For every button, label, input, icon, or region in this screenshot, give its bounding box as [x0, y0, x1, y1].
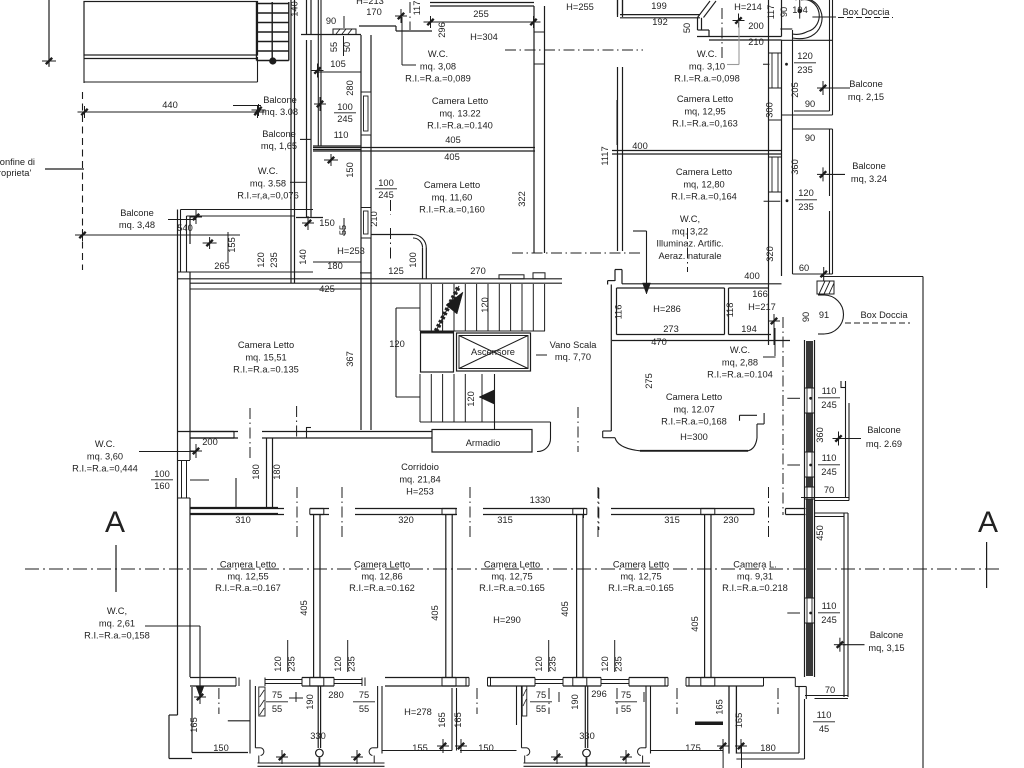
- svg-text:H=290: H=290: [493, 615, 521, 625]
- entry niche steps: [697, 18, 699, 30]
- door arc entry hall: [371, 234, 413, 236]
- stairwell west wall: [533, 6, 535, 253]
- svg-text:120: 120: [333, 656, 343, 672]
- wall stub right balcony: [695, 722, 723, 726]
- svg-text:90: 90: [805, 133, 815, 143]
- svg-text:50: 50: [682, 23, 692, 33]
- bedroom5 door jambs: [753, 509, 755, 515]
- svg-text:Balcone: Balcone: [870, 630, 904, 640]
- svg-text:210: 210: [369, 211, 379, 227]
- svg-text:mq. 11,60: mq. 11,60: [432, 192, 473, 202]
- svg-text:125: 125: [388, 266, 404, 276]
- svg-text:mq. 12,75: mq. 12,75: [491, 571, 532, 581]
- svg-text:296: 296: [437, 22, 447, 38]
- svg-text:120: 120: [256, 252, 266, 268]
- balcony bedroom3 left wall: [516, 686, 518, 725]
- right box H=217: [729, 287, 769, 289]
- svg-text:mq. 12.07: mq. 12.07: [673, 404, 714, 414]
- door centerline camera 12.07: [577, 407, 579, 452]
- camera 12.07 left wall with notch: [610, 285, 612, 432]
- balcone 2.69 outline: [845, 381, 847, 498]
- svg-text:199: 199: [651, 1, 667, 11]
- balcony left under bedroom1: [191, 687, 193, 753]
- svg-text:Camera Letto: Camera Letto: [666, 392, 722, 402]
- svg-text:mq. 3,60: mq. 3,60: [87, 451, 123, 461]
- svg-text:160: 160: [154, 481, 170, 491]
- svg-text:270: 270: [470, 266, 486, 276]
- balcony door centerlines: [218, 688, 220, 714]
- svg-text:R.I.=R.a.=0.167: R.I.=R.a.=0.167: [215, 583, 281, 593]
- svg-text:Camera Letto: Camera Letto: [238, 340, 294, 350]
- svg-text:245: 245: [378, 190, 394, 200]
- svg-text:150: 150: [213, 743, 229, 753]
- stairwell window west wall: [535, 32, 544, 64]
- svg-text:120: 120: [534, 656, 544, 672]
- svg-text:322: 322: [517, 191, 527, 207]
- svg-text:R.I.=R.a.=0,089: R.I.=R.a.=0,089: [405, 74, 471, 84]
- svg-text:165: 165: [714, 699, 724, 715]
- svg-text:166: 166: [752, 289, 768, 299]
- svg-text:mq. 21,84: mq. 21,84: [399, 474, 440, 484]
- right apartment entry wall 199: [617, 0, 619, 15]
- svg-text:100: 100: [408, 252, 418, 268]
- wall west of entry strip: [290, 0, 292, 283]
- svg-text:H=300: H=300: [680, 432, 708, 442]
- tick at entry: [400, 9, 402, 23]
- svg-text:180: 180: [251, 464, 261, 480]
- svg-text:120: 120: [600, 656, 610, 672]
- terrace balcony top-left outline: [84, 2, 258, 56]
- right exterior wall upper: [768, 0, 770, 120]
- armadio outer wall curve: [495, 421, 551, 423]
- svg-text:120: 120: [798, 188, 814, 198]
- svg-text:H=213: H=213: [356, 0, 384, 6]
- dimension 150 and tick: [307, 216, 309, 230]
- crosses on rail 3-4: [556, 750, 558, 764]
- svg-text:mq. 3,08: mq. 3,08: [420, 61, 456, 71]
- svg-text:R.I.=R.a.=0.135: R.I.=R.a.=0.135: [233, 365, 299, 375]
- svg-text:110: 110: [334, 130, 349, 140]
- svg-text:A: A: [978, 506, 998, 539]
- terrace left edge lines: [83, 55, 85, 83]
- svg-text:310: 310: [235, 515, 251, 525]
- svg-text:120: 120: [480, 297, 490, 313]
- pilaster stub camera 12.07 corner: [614, 270, 616, 282]
- svg-text:55: 55: [272, 704, 282, 714]
- window right wall 2: [770, 157, 781, 192]
- svg-text:Balcone: Balcone: [849, 79, 883, 89]
- box doccia top arc: [793, 0, 823, 39]
- balcony 3-4 bottom rail: [524, 762, 651, 764]
- svg-text:mq, 1,65: mq, 1,65: [261, 141, 297, 151]
- svg-text:45: 45: [819, 724, 829, 734]
- door jambs bedroom bottom wall: [235, 678, 237, 687]
- svg-text:330: 330: [579, 731, 595, 741]
- window camera 13.22: [362, 92, 371, 135]
- entry door wall step: [359, 25, 396, 27]
- svg-text:mq. 3.58: mq. 3.58: [250, 178, 286, 188]
- svg-text:90: 90: [805, 99, 815, 109]
- svg-text:A: A: [105, 506, 125, 539]
- svg-text:55: 55: [359, 704, 369, 714]
- property boundary vertical line: [48, 0, 50, 66]
- svg-text:Camera Letto: Camera Letto: [424, 180, 480, 190]
- svg-text:70: 70: [824, 485, 834, 495]
- svg-text:Armadio: Armadio: [466, 438, 501, 448]
- svg-text:110: 110: [817, 710, 832, 720]
- camera 12.07 ornate bottom wall: [640, 450, 748, 452]
- svg-text:245: 245: [821, 467, 837, 477]
- svg-text:Corridoio: Corridoio: [401, 462, 439, 472]
- windows right lower wall: [805, 387, 815, 389]
- right dash dot vertical: [782, 317, 784, 515]
- stair up arrow hatched: [436, 286, 459, 331]
- svg-text:360: 360: [790, 159, 800, 175]
- boundary tick line: [45, 168, 84, 170]
- wall wc 3.58 east side: [306, 40, 308, 218]
- svg-text:280: 280: [345, 80, 355, 96]
- wall stub in wc 3.60: [235, 478, 237, 508]
- window sills bedroom bottom: [265, 679, 302, 681]
- right lower wall dark fill: [806, 341, 813, 388]
- svg-text:mq, 3.24: mq, 3.24: [851, 174, 887, 184]
- svg-text:mq. 7,70: mq. 7,70: [555, 352, 591, 362]
- svg-text:450: 450: [815, 525, 825, 541]
- svg-text:H=253: H=253: [337, 246, 365, 256]
- dimension line 235: [75, 234, 240, 236]
- door centerline corridor wc: [249, 408, 251, 458]
- svg-text:W.C,: W.C,: [107, 606, 127, 616]
- svg-text:W.C.: W.C.: [428, 49, 448, 59]
- svg-text:100: 100: [154, 469, 170, 479]
- svg-text:Illuminaz. Artific.: Illuminaz. Artific.: [656, 239, 723, 249]
- svg-text:440: 440: [162, 100, 178, 110]
- svg-text:75: 75: [272, 690, 282, 700]
- svg-text:150: 150: [345, 162, 355, 178]
- svg-text:120: 120: [797, 51, 813, 61]
- svg-text:mq. 3.08: mq. 3.08: [262, 107, 298, 117]
- svg-text:105: 105: [330, 59, 346, 69]
- svg-text:R.I.=R.a.=0.165: R.I.=R.a.=0.165: [479, 583, 545, 593]
- svg-text:R.I.=R.a.=0,444: R.I.=R.a.=0,444: [72, 464, 138, 474]
- wall above H286 boxes: [622, 283, 782, 285]
- wc 3.60 bottom wall: [190, 507, 278, 509]
- svg-text:55: 55: [621, 704, 631, 714]
- svg-text:1330: 1330: [530, 495, 551, 505]
- wc 3.60 door opening: [178, 460, 191, 462]
- entry door diagonal: [698, 1, 711, 18]
- svg-text:280: 280: [328, 690, 344, 700]
- svg-text:91: 91: [819, 310, 829, 320]
- balcone 2.15 outline: [792, 30, 794, 274]
- svg-text:330: 330: [310, 731, 326, 741]
- svg-text:mq. 2,61: mq. 2,61: [99, 618, 135, 628]
- svg-text:90: 90: [779, 7, 789, 17]
- svg-text:75: 75: [536, 690, 546, 700]
- wc 2.61 leader arrow: [145, 625, 200, 627]
- right end balcony 3-4: [645, 686, 647, 748]
- camera 15.51 east wall: [360, 283, 362, 430]
- svg-text:205: 205: [790, 82, 800, 98]
- stairwell east wall: [617, 0, 619, 17]
- crosses on center balcony rail: [281, 750, 283, 764]
- balcony post circle bedroom3-4: [583, 749, 591, 757]
- svg-text:mq, 12,95: mq, 12,95: [684, 106, 725, 116]
- wc 3.22 leader arrow down: [646, 231, 648, 289]
- svg-text:235: 235: [798, 202, 814, 212]
- svg-text:Camera Letto: Camera Letto: [354, 560, 410, 570]
- svg-text:405: 405: [560, 601, 570, 617]
- svg-text:W.C.: W.C.: [730, 345, 750, 355]
- left exterior wall inner line upper: [189, 216, 191, 244]
- right end of center balcony: [377, 686, 379, 748]
- svg-text:R.I.=R.a.=0,168: R.I.=R.a.=0,168: [661, 417, 727, 427]
- svg-text:Camera Letto: Camera Letto: [676, 167, 732, 177]
- wall notches on top wall: [499, 275, 524, 279]
- svg-text:Camera Letto: Camera Letto: [484, 560, 540, 570]
- svg-text:117: 117: [412, 1, 422, 16]
- window camera 11.60: [362, 208, 371, 238]
- recessed rail between balconies: [382, 750, 452, 752]
- svg-text:H=214: H=214: [734, 2, 762, 12]
- tick balcone 3.08: [319, 97, 321, 111]
- svg-text:mq. 3,22: mq. 3,22: [672, 226, 708, 236]
- svg-text:H=217: H=217: [748, 302, 776, 312]
- svg-text:Ascensore: Ascensore: [471, 347, 515, 357]
- balcone 3.48 outline: [180, 210, 182, 273]
- svg-text:118: 118: [725, 303, 735, 318]
- balcone 3.24 outline: [793, 128, 833, 130]
- window right wall 1: [770, 53, 781, 88]
- svg-text:H=278: H=278: [404, 707, 432, 717]
- svg-text:170: 170: [366, 7, 382, 17]
- svg-text:Camera Letto: Camera Letto: [677, 94, 733, 104]
- elevator Ascensore box: [457, 333, 531, 371]
- svg-text:180: 180: [760, 743, 776, 753]
- dimension 105 line: [317, 71, 361, 73]
- balcony post circle bedroom1-2: [316, 749, 324, 757]
- svg-text:Balcone: Balcone: [263, 95, 297, 105]
- svg-text:165: 165: [453, 712, 463, 728]
- balcony partition wall 1: [249, 680, 251, 754]
- dimension ticks balcone: [203, 242, 217, 244]
- svg-text:mq. 2.69: mq. 2.69: [866, 439, 902, 449]
- svg-text:R.I.=R.a.=0,163: R.I.=R.a.=0,163: [672, 119, 738, 129]
- svg-text:405: 405: [445, 135, 461, 145]
- svg-text:mq, 2,88: mq, 2,88: [722, 357, 758, 367]
- dimension 440 line: [84, 111, 258, 113]
- staircase landing dot: [269, 57, 276, 64]
- svg-text:mq, 12,80: mq, 12,80: [683, 179, 724, 189]
- svg-text:mq. 9,31: mq. 9,31: [737, 571, 773, 581]
- line under boxes: [612, 340, 790, 342]
- svg-text:Camera Letto: Camera Letto: [613, 560, 669, 570]
- svg-text:200: 200: [202, 437, 218, 447]
- bedroom partition walls: [313, 515, 315, 678]
- property boundary dashed line: [82, 92, 84, 270]
- svg-text:367: 367: [345, 351, 355, 367]
- stair landing box: [421, 332, 454, 372]
- svg-text:235: 235: [269, 252, 279, 268]
- svg-text:mq, 3,15: mq, 3,15: [868, 643, 904, 653]
- svg-text:W.C,: W.C,: [680, 214, 700, 224]
- stair treads upper flight: [419, 284, 421, 331]
- svg-text:315: 315: [664, 515, 680, 525]
- svg-text:R.I.=R.a.=0.140: R.I.=R.a.=0.140: [427, 121, 493, 131]
- svg-text:100: 100: [337, 102, 353, 112]
- wall between camera 13.22 and 11.60: [313, 147, 535, 149]
- T caps bedroom partitions: [310, 508, 324, 510]
- svg-text:273: 273: [663, 324, 679, 334]
- svg-text:296: 296: [591, 689, 607, 699]
- bottom T caps partitions: [310, 677, 324, 679]
- wall between recessed balconies: [451, 688, 453, 751]
- svg-text:190: 190: [570, 694, 580, 710]
- balcone 3.15 outline: [815, 512, 849, 514]
- svg-text:mq. 12,86: mq. 12,86: [361, 571, 402, 581]
- svg-text:470: 470: [651, 337, 667, 347]
- partition line into balcony: [317, 686, 319, 748]
- svg-text:120: 120: [466, 391, 476, 407]
- svg-text:R.I.=R.a.=0.165: R.I.=R.a.=0.165: [608, 583, 674, 593]
- svg-text:190: 190: [305, 694, 315, 710]
- svg-text:110: 110: [822, 601, 837, 611]
- external staircase treads: [257, 3, 289, 5]
- svg-text:mq. 2,15: mq. 2,15: [848, 92, 884, 102]
- H 217 tick arrow: [773, 314, 775, 328]
- svg-text:400: 400: [744, 271, 760, 281]
- svg-text:265: 265: [214, 261, 230, 271]
- svg-text:75: 75: [621, 690, 631, 700]
- svg-text:1117: 1117: [600, 146, 610, 165]
- window jamb hatch balcony3: [522, 686, 527, 716]
- svg-text:W.C.: W.C.: [95, 439, 115, 449]
- svg-text:Vano Scala: Vano Scala: [550, 340, 598, 350]
- window jamb hatch balcony2: [259, 687, 265, 716]
- stair left landing strip: [395, 308, 397, 397]
- bedroom bottom wall with windows: [190, 677, 236, 679]
- corridor top wall left section: [190, 431, 238, 433]
- svg-text:W.C.: W.C.: [697, 49, 717, 59]
- svg-text:proprieta': proprieta': [0, 168, 31, 178]
- svg-text:165: 165: [189, 717, 199, 733]
- wall under 200: [697, 36, 782, 38]
- svg-text:315: 315: [497, 515, 513, 525]
- svg-text:120: 120: [389, 339, 405, 349]
- dash dot centerline y=50: [505, 49, 643, 51]
- svg-text:230: 230: [723, 515, 739, 525]
- wall west of camera 13.22: [360, 35, 362, 283]
- right exterior wall mid: [768, 129, 770, 345]
- bedroom5 balcony rail: [798, 687, 800, 753]
- svg-text:Camera Letto: Camera Letto: [432, 96, 488, 106]
- svg-text:Balcone: Balcone: [867, 425, 901, 435]
- svg-text:Balcone: Balcone: [262, 129, 296, 139]
- svg-text:Box Doccia: Box Doccia: [860, 310, 908, 320]
- wc 3.60 top wall with niche: [178, 431, 235, 433]
- svg-text:210: 210: [748, 37, 764, 47]
- svg-text:R.I.=R.a.=0,160: R.I.=R.a.=0,160: [419, 205, 485, 215]
- stair treads lower flight: [419, 374, 421, 422]
- svg-text:194: 194: [741, 324, 757, 334]
- svg-text:60: 60: [799, 263, 809, 273]
- svg-text:mq. 12,75: mq. 12,75: [620, 571, 661, 581]
- left bottom corner step: [169, 714, 178, 716]
- svg-text:320: 320: [398, 515, 414, 525]
- bedroom top wall: [190, 508, 284, 510]
- svg-text:R.I.=r,a,=0,076: R.I.=r,a,=0,076: [237, 191, 299, 201]
- svg-text:R.I.=R.a.=0,158: R.I.=R.a.=0,158: [84, 631, 150, 641]
- H286 room box: [616, 288, 618, 335]
- shower box hatched: [817, 281, 834, 294]
- svg-text:245: 245: [821, 400, 837, 410]
- svg-text:117: 117: [766, 5, 776, 20]
- svg-text:H=286: H=286: [653, 304, 681, 314]
- svg-text:mq. 3,48: mq. 3,48: [119, 220, 155, 230]
- svg-text:100: 100: [378, 178, 394, 188]
- svg-text:300: 300: [765, 102, 775, 118]
- svg-text:200: 200: [748, 21, 764, 31]
- svg-text:H=253: H=253: [406, 487, 434, 497]
- wc 3.60 east wall: [266, 438, 268, 508]
- svg-text:75: 75: [359, 690, 369, 700]
- svg-text:405: 405: [444, 152, 460, 162]
- b5 bottom wall with door: [729, 677, 795, 679]
- wc 2.88 leader: [774, 328, 776, 356]
- svg-text:180: 180: [272, 464, 282, 480]
- svg-text:mq. 12,55: mq. 12,55: [227, 571, 268, 581]
- wc 2.61 interior step: [228, 720, 250, 722]
- svg-text:90: 90: [801, 312, 811, 322]
- svg-text:150: 150: [478, 743, 494, 753]
- svg-text:Camera Letto: Camera Letto: [220, 560, 276, 570]
- section line A-A: [25, 568, 1000, 570]
- camera 15.51 top wall: [178, 271, 314, 273]
- svg-text:320: 320: [765, 246, 775, 262]
- entry window sill: [333, 29, 356, 35]
- svg-text:R.I.=R.a.=0.162: R.I.=R.a.=0.162: [349, 583, 415, 593]
- svg-text:405: 405: [299, 600, 309, 616]
- boundary rectangle box doccia: [820, 276, 923, 278]
- svg-text:Balcone: Balcone: [120, 208, 154, 218]
- svg-text:Camera L.: Camera L.: [733, 560, 776, 570]
- door centerlines bedrooms: [296, 487, 298, 537]
- svg-text:55: 55: [536, 704, 546, 714]
- svg-text:192: 192: [652, 17, 668, 27]
- svg-text:140: 140: [298, 249, 308, 265]
- svg-text:R.I.=R.a.=0.104: R.I.=R.a.=0.104: [707, 370, 773, 380]
- svg-text:W.C.: W.C.: [258, 166, 278, 176]
- svg-text:mq. 15,51: mq. 15,51: [245, 352, 286, 362]
- svg-text:275: 275: [644, 373, 654, 389]
- door centerline wc 3.22: [687, 228, 689, 272]
- main wall above corridor and stairs: [178, 278, 563, 280]
- svg-text:Aeraz. naturale: Aeraz. naturale: [658, 251, 721, 261]
- armadio closet box: [432, 430, 532, 453]
- svg-text:405: 405: [690, 616, 700, 632]
- svg-text:165: 165: [734, 713, 744, 729]
- svg-text:155: 155: [412, 743, 428, 753]
- svg-text:mq. 13.22: mq. 13.22: [439, 108, 480, 118]
- right lower exterior wall: [804, 340, 806, 677]
- window dim extension lines right wall: [787, 397, 800, 399]
- svg-text:55: 55: [338, 225, 348, 235]
- svg-text:360: 360: [815, 427, 825, 443]
- svg-text:90: 90: [326, 16, 336, 26]
- dash dot centerline y=253: [512, 252, 642, 254]
- svg-text:Confine di: Confine di: [0, 157, 35, 167]
- svg-text:400: 400: [632, 141, 648, 151]
